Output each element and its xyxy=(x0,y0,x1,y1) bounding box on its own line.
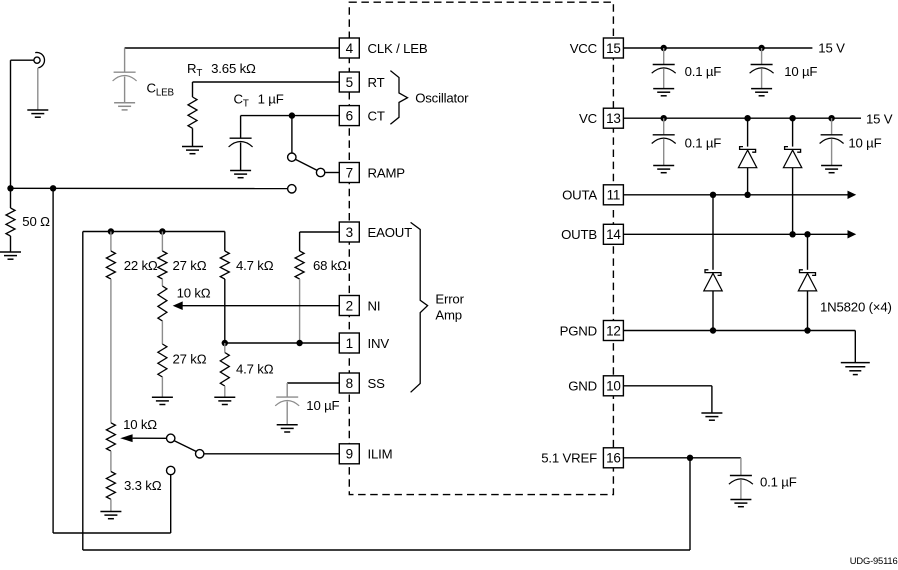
ground under CT xyxy=(230,170,251,172)
node VC 0.1uF xyxy=(661,115,667,121)
ground GND xyxy=(701,412,722,414)
ground under 10uF VCC xyxy=(751,88,772,90)
node PGND diode C xyxy=(710,327,716,333)
ground under SS cap xyxy=(277,424,298,426)
svg-text:1: 1 xyxy=(346,336,353,351)
svg-text:VCC: VCC xyxy=(570,41,598,56)
svg-text:RAMP: RAMP xyxy=(368,165,406,180)
svg-text:0.1 µF: 0.1 µF xyxy=(685,64,722,79)
svg-text:INV: INV xyxy=(368,336,390,351)
resistor 27 k upper xyxy=(161,232,163,252)
arrow OUTA xyxy=(848,191,857,199)
svg-text:13: 13 xyxy=(606,111,621,126)
arrow NI wiper xyxy=(173,301,183,310)
wire VC rail 15V xyxy=(623,117,861,119)
ground under connector xyxy=(27,109,48,111)
svg-text:4: 4 xyxy=(346,41,354,56)
wire PGND pin12 xyxy=(623,330,855,332)
node input rail mid xyxy=(50,185,56,191)
switch arm RAMP xyxy=(296,159,317,170)
diode D4 (PGND to OUTB) xyxy=(807,234,809,269)
svg-text:OUTB: OUTB xyxy=(561,227,597,242)
resistor 50 ohm xyxy=(10,188,12,208)
svg-text:8: 8 xyxy=(346,376,353,391)
ground under 3.3 k xyxy=(100,511,121,513)
IC dashed outline U1 xyxy=(349,2,613,494)
wire INV pin1 xyxy=(225,342,339,344)
svg-text:50 Ω: 50 Ω xyxy=(22,214,50,229)
pin 4 box xyxy=(339,38,359,58)
pin 12 box xyxy=(603,321,623,341)
pin 10 box xyxy=(603,376,623,396)
arrow OUTB xyxy=(848,230,857,238)
node INV 4.7k xyxy=(222,340,228,346)
capacitor 0.1 uF VC xyxy=(663,118,665,134)
node INV 68k xyxy=(296,340,302,346)
svg-text:ILIM: ILIM xyxy=(368,447,393,462)
svg-text:CLK / LEB: CLK / LEB xyxy=(368,41,428,56)
ground under 10uF VC xyxy=(821,165,842,167)
diode D2 (VC to OUTB) xyxy=(792,118,794,146)
wire RT pin5 xyxy=(193,81,340,83)
wire NI pin2 wiper xyxy=(182,305,340,307)
wire VCC rail 15V xyxy=(623,47,812,49)
node VC 10uF xyxy=(828,115,834,121)
capacitor SS 10 uF xyxy=(276,396,298,398)
switch arm ILIM xyxy=(174,441,196,452)
resistor RT 3.65 k xyxy=(188,97,197,128)
svg-text:NI: NI xyxy=(368,298,381,313)
pin 14 box xyxy=(603,224,623,244)
svg-text:10 µF: 10 µF xyxy=(848,136,881,151)
resistor 4.7 k lower xyxy=(220,353,229,387)
svg-text:0.1 µF: 0.1 µF xyxy=(685,136,722,151)
ground under 50 ohm xyxy=(0,251,21,253)
svg-text:1N5820 (×4): 1N5820 (×4) xyxy=(820,299,892,314)
wire wiper to switch contact xyxy=(133,437,167,439)
brace Oscillator xyxy=(390,71,407,125)
svg-text:27 kΩ: 27 kΩ xyxy=(173,258,207,273)
svg-text:CT: CT xyxy=(368,109,385,124)
node VCC 0.1uF xyxy=(661,45,667,51)
diode D1 (VC to OUTA) xyxy=(747,118,749,146)
svg-text:4.7 kΩ: 4.7 kΩ xyxy=(236,258,274,273)
potentiometer 10 k ILIM xyxy=(106,423,115,451)
wire error-amp top rail xyxy=(83,231,225,233)
wire OUTB pin14 xyxy=(623,233,847,235)
svg-text:15 V: 15 V xyxy=(818,41,845,56)
node 22k top xyxy=(108,228,114,234)
wire input rail to switch xyxy=(11,187,288,189)
pin 1 box xyxy=(339,333,359,353)
svg-text:OUTA: OUTA xyxy=(562,188,597,203)
wire CLK/LEB pin4 to CLEB xyxy=(125,47,340,49)
connector J1 xyxy=(34,57,40,63)
svg-text:Error: Error xyxy=(435,292,464,307)
svg-text:5.1 VREF: 5.1 VREF xyxy=(541,451,597,466)
wire RAMP pin7 xyxy=(325,172,340,174)
svg-text:PGND: PGND xyxy=(560,323,597,338)
svg-text:VC: VC xyxy=(579,111,598,126)
pin 2 box xyxy=(339,296,359,316)
pin 8 box xyxy=(339,373,359,393)
switch contact upper (CT) xyxy=(288,153,296,161)
switch pivot ILIM xyxy=(196,450,204,458)
ground under 27 k lower xyxy=(152,396,173,398)
ground under VREF cap xyxy=(730,499,751,501)
ground under 0.1uF VCC xyxy=(653,88,674,90)
node 27k top xyxy=(159,228,165,234)
switch contact lower ILIM xyxy=(167,466,175,474)
svg-text:7: 7 xyxy=(346,165,353,180)
capacitor 10 uF VC xyxy=(831,118,833,134)
ground under 0.1uF VC xyxy=(653,165,674,167)
ground under 4.7 k lower xyxy=(214,396,235,398)
capacitor CT 1 uF xyxy=(230,137,252,139)
arrow ILIM wiper xyxy=(120,434,132,442)
node PGND diode D xyxy=(804,327,810,333)
svg-text:2: 2 xyxy=(346,298,353,313)
resistor 22 k xyxy=(110,232,112,252)
svg-text:11: 11 xyxy=(607,188,621,203)
resistor 4.7 k upper xyxy=(224,232,226,252)
wire CT pin6 xyxy=(241,115,340,117)
pin 15 box xyxy=(603,38,623,58)
svg-text:12: 12 xyxy=(606,323,621,338)
svg-text:GND: GND xyxy=(568,379,597,394)
svg-text:10 µF: 10 µF xyxy=(306,398,339,413)
node VC diode B xyxy=(789,115,795,121)
node CT junction xyxy=(289,112,295,118)
svg-text:15: 15 xyxy=(606,41,621,56)
svg-text:9: 9 xyxy=(346,447,353,462)
pin 9 box xyxy=(339,444,359,464)
wire EAOUT pin3 xyxy=(300,231,340,233)
ground under CLEB xyxy=(114,102,135,104)
wire connector to ground xyxy=(37,68,39,110)
pin 13 box xyxy=(603,108,623,128)
pin 11 box xyxy=(603,185,623,205)
wire input node down to ILIM switch throw xyxy=(52,188,54,533)
wire connector to rail xyxy=(11,59,34,61)
svg-text:5: 5 xyxy=(346,75,353,90)
svg-text:Amp: Amp xyxy=(435,308,462,323)
svg-text:10 µF: 10 µF xyxy=(784,64,817,79)
svg-text:SS: SS xyxy=(368,376,386,391)
pin 5 box xyxy=(339,72,359,92)
svg-text:68 kΩ: 68 kΩ xyxy=(313,258,347,273)
svg-text:6: 6 xyxy=(346,109,353,124)
node OUTB diode B anode xyxy=(789,231,795,237)
wire SS pin8 xyxy=(287,382,339,384)
potentiometer 10 k (NI) xyxy=(161,279,163,286)
wire ILIM pin9 xyxy=(204,453,339,455)
svg-text:22 kΩ: 22 kΩ xyxy=(124,258,158,273)
svg-text:4.7 kΩ: 4.7 kΩ xyxy=(236,362,274,377)
svg-text:UDG-95116: UDG-95116 xyxy=(850,555,898,565)
pin 6 box xyxy=(339,106,359,126)
svg-text:3: 3 xyxy=(346,225,353,240)
capacitor 10 uF VCC xyxy=(761,48,763,64)
svg-text:10 kΩ: 10 kΩ xyxy=(123,417,157,432)
resistor 27 k lower xyxy=(158,344,167,377)
node VREF xyxy=(687,455,693,461)
svg-text:16: 16 xyxy=(606,451,621,466)
switch contact lower (input rail) xyxy=(288,185,296,193)
node VCC 10uF xyxy=(758,45,764,51)
capacitor 0.1 uF VCC xyxy=(663,48,665,64)
resistor 68 k xyxy=(295,251,304,279)
svg-text:15 V: 15 V xyxy=(866,111,893,126)
svg-text:10 kΩ: 10 kΩ xyxy=(177,286,211,301)
pin 16 box xyxy=(603,448,623,468)
wire CT to RAMP switch xyxy=(291,116,293,154)
svg-text:RT: RT xyxy=(368,75,385,90)
svg-text:14: 14 xyxy=(606,227,621,242)
pin 3 box xyxy=(339,222,359,242)
wire OUTA pin11 xyxy=(623,194,847,196)
svg-text:27 kΩ: 27 kΩ xyxy=(173,352,207,367)
node VC diode A xyxy=(744,115,750,121)
svg-text:10: 10 xyxy=(606,379,621,394)
node input rail left xyxy=(7,185,13,191)
svg-text:Oscillator: Oscillator xyxy=(415,91,469,106)
svg-text:0.1 µF: 0.1 µF xyxy=(760,475,797,490)
switch contact upper ILIM xyxy=(167,434,175,442)
wire GND pin10 xyxy=(623,385,712,387)
switch pivot at RAMP pin7 xyxy=(316,168,324,176)
node OUTB diode D xyxy=(804,231,810,237)
brace Error Amp xyxy=(411,222,428,392)
svg-text:EAOUT: EAOUT xyxy=(368,225,413,240)
svg-text:3.3 kΩ: 3.3 kΩ xyxy=(124,478,162,493)
capacitor CLEB xyxy=(124,48,126,72)
ground PGND xyxy=(841,362,870,364)
wire rail corner down to VREF return xyxy=(82,232,84,551)
diode D3 (PGND to OUTA) xyxy=(712,195,714,270)
node OUTA diode A anode xyxy=(744,192,750,198)
pin 7 box xyxy=(339,163,359,183)
resistor 3.3 k xyxy=(106,472,115,500)
node OUTA diode C xyxy=(710,192,716,198)
wire 22k to ILIM pot xyxy=(110,279,112,423)
ground under RT xyxy=(182,146,203,148)
wire VREF pin16 xyxy=(623,457,741,459)
capacitor 0.1 uF VREF xyxy=(740,458,742,475)
